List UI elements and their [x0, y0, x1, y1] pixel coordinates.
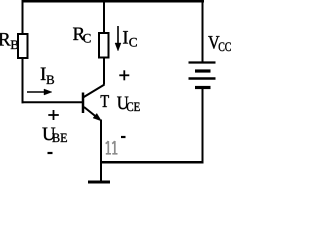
- current arrow IB: [27, 89, 52, 95]
- wire base horizontal: [22, 101, 85, 103]
- label IC: [123, 31, 128, 43]
- wire right branch lower vertical: [202, 89, 204, 163]
- label RC: [73, 28, 85, 40]
- label - (UBE minus): [48, 152, 53, 154]
- label - (UCE minus): [121, 136, 126, 138]
- resistor RB: [18, 34, 28, 58]
- label + (UBE plus): [48, 110, 59, 120]
- label RB: [0, 33, 11, 45]
- battery VCC long plate 2: [189, 77, 216, 80]
- ground: [88, 181, 110, 184]
- current arrow IC: [115, 26, 121, 51]
- wire collector vertical upper: [103, 0, 105, 34]
- label IB: [41, 68, 46, 80]
- wire top rail: [22, 0, 205, 3]
- battery VCC short plate 1: [195, 69, 211, 72]
- battery VCC long plate 1: [189, 61, 216, 63]
- wire left branch lower vertical: [22, 58, 24, 103]
- label UCE: [117, 97, 128, 110]
- label T: [101, 95, 109, 107]
- label + (UCE plus): [119, 70, 129, 80]
- transistor T emitter diagonal with arrow: [84, 107, 102, 121]
- wire bottom rail: [101, 161, 204, 164]
- label VCC: [208, 36, 219, 49]
- transistor T base bar: [82, 93, 85, 114]
- resistor RC: [99, 33, 109, 58]
- label UBE: [42, 128, 55, 141]
- wire left branch upper vertical: [22, 0, 24, 35]
- battery VCC short plate 2: [195, 86, 211, 89]
- wire collector vertical lower: [103, 58, 105, 85]
- label 11 (gray artifact): [106, 141, 118, 154]
- wire emitter vertical: [100, 120, 102, 184]
- wire right branch upper vertical: [202, 0, 204, 62]
- transistor T collector diagonal: [83, 85, 105, 98]
